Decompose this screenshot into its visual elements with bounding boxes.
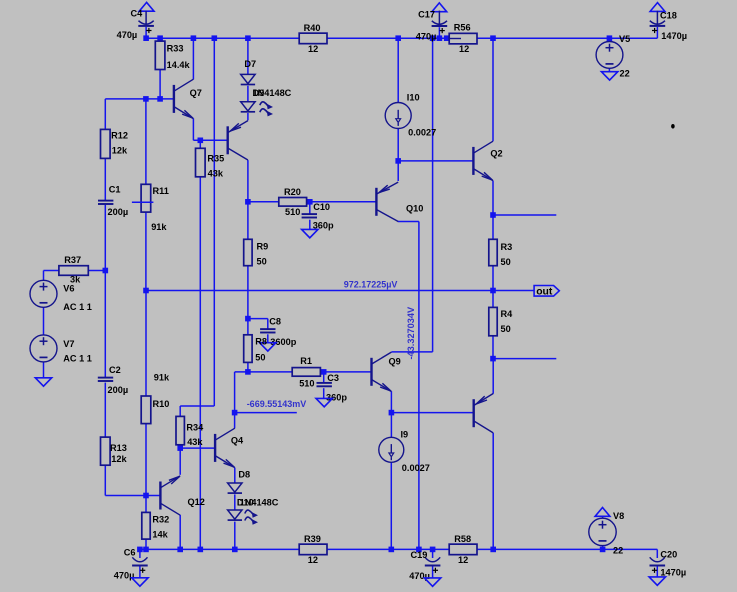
resistor R58: [449, 534, 477, 565]
junction -rail I9: [389, 547, 395, 553]
wire Q2 emitter down: [492, 181, 494, 215]
node voltage 972.17225µV: [344, 279, 398, 289]
svg-text:R35: R35: [207, 154, 224, 164]
svg-text:R3: R3: [501, 242, 513, 252]
resistor R11: [141, 184, 169, 232]
junction R20 R9: [245, 199, 251, 205]
wire Q4 emitter to D8: [234, 468, 236, 483]
wire Q7 emitter to QX bar: [193, 139, 227, 141]
junction Q12 base: [143, 493, 149, 499]
junction rail R34 column: [212, 35, 218, 41]
ground C3: [316, 398, 332, 406]
wire R35 top: [199, 140, 201, 148]
junction Q7 base R11: [143, 96, 149, 102]
junction R1 C3: [321, 369, 327, 375]
resistor R37: [59, 255, 88, 285]
current source I9 value 0.0027: [379, 430, 430, 474]
svg-text:Q12: Q12: [188, 497, 205, 507]
wire Q7 base net: [105, 99, 174, 129]
wire R11 column upper: [145, 99, 147, 184]
capacitor C4: [117, 8, 154, 40]
junction C8 R9: [245, 316, 251, 322]
wire C19 stem: [432, 549, 434, 558]
svg-text:12: 12: [459, 44, 469, 54]
svg-text:R34: R34: [186, 422, 204, 432]
junction mid R3 R4 out: [490, 288, 496, 294]
svg-text:C4: C4: [131, 8, 144, 18]
power flag C17: [432, 3, 447, 12]
wire Q9 emitter down: [390, 391, 392, 412]
junction rail R56 lead: [444, 35, 450, 41]
svg-text:12: 12: [308, 555, 318, 565]
svg-text:Q7: Q7: [190, 88, 202, 98]
capacitor C2: [98, 365, 128, 395]
wire Q12 collector down to -rail: [179, 515, 181, 550]
wire Q7 collector to rail: [192, 38, 194, 79]
wire R37 left to V6: [44, 271, 59, 281]
junction Q7 base R33: [157, 96, 163, 102]
wire stub right of R3 junction: [493, 214, 556, 216]
wire D9 to QX emitter: [247, 113, 249, 120]
transistor Q lower right: [474, 394, 494, 433]
junction -rail R35: [198, 547, 204, 553]
wire D8 to D10: [234, 494, 236, 510]
svg-text:R1: R1: [300, 356, 312, 366]
junction rail C4: [143, 35, 149, 41]
wire Q12 base junction to R32: [145, 496, 147, 513]
voltage source V7 value AC 1 1: [30, 335, 92, 363]
svg-text:R39: R39: [304, 534, 321, 544]
svg-text:50: 50: [257, 257, 267, 267]
junction R20 C10: [307, 199, 313, 205]
svg-text:V5: V5: [619, 34, 630, 44]
svg-text:I9: I9: [401, 430, 409, 440]
svg-text:R40: R40: [304, 23, 321, 33]
transistor Q2: [473, 141, 502, 180]
svg-text:D8: D8: [238, 470, 250, 480]
resistor R8: [244, 335, 267, 363]
wire V7 to ground: [43, 362, 45, 378]
junction R1 left: [245, 369, 251, 375]
voltage source V6 value AC 1 1: [30, 280, 92, 312]
wire R33 bottom: [159, 70, 161, 99]
capacitor C18: [650, 11, 687, 41]
svg-text:V7: V7: [63, 339, 74, 349]
wire R32 to -rail: [145, 539, 147, 549]
resistor R9: [244, 239, 269, 266]
wire Q7 emitter down: [192, 118, 194, 140]
svg-text:91k: 91k: [154, 372, 170, 382]
capacitor C8 value 3600p: [260, 316, 297, 347]
wire C3 stem: [323, 372, 325, 383]
svg-text:C1: C1: [109, 185, 121, 195]
svg-text:12: 12: [308, 44, 318, 54]
junction rail D7: [245, 35, 251, 41]
svg-text:C8: C8: [269, 316, 281, 326]
junction R4 stub: [490, 356, 496, 362]
voltage source V8 value 22: [589, 511, 624, 555]
wire lower Q emitter up: [492, 359, 494, 394]
svg-text:R8: R8: [255, 336, 267, 346]
transistor Q9: [372, 352, 401, 391]
svg-text:14.4k: 14.4k: [167, 60, 191, 70]
power flag C18: [650, 3, 665, 12]
resistor R20: [279, 187, 307, 217]
wire C8 to ground: [267, 334, 269, 342]
svg-text:1470µ: 1470µ: [660, 567, 686, 577]
wire R12 bottom to C1: [104, 158, 106, 200]
svg-text:50: 50: [255, 352, 265, 362]
wire rail to R34 column: [180, 38, 214, 416]
resistor R33: [155, 41, 190, 70]
svg-text:200µ: 200µ: [108, 207, 129, 217]
power flag V8: [595, 508, 610, 517]
svg-text:V8: V8: [613, 511, 624, 521]
svg-text:R37: R37: [64, 255, 81, 265]
resistor R1: [292, 356, 320, 389]
diode D10 value 1N4148C: [228, 497, 279, 524]
svg-text:R33: R33: [167, 44, 184, 54]
svg-text:200µ: 200µ: [108, 385, 129, 395]
svg-text:R4: R4: [501, 309, 514, 319]
wire lower Q collector to -rail: [492, 433, 494, 550]
svg-text:14k: 14k: [152, 529, 168, 539]
resistor R56: [449, 23, 477, 54]
wire V5 to ground: [608, 68, 610, 71]
resistor R12: [101, 129, 129, 158]
wire R1 corner down: [234, 372, 236, 413]
junction -rail V8: [600, 547, 606, 553]
wire Q9 emitter junction to I9: [390, 413, 392, 438]
wire mid junction to R10: [145, 291, 147, 397]
svg-text:510: 510: [299, 379, 314, 389]
junction -rail lower Q: [490, 547, 496, 553]
svg-text:43k: 43k: [208, 169, 224, 179]
node out flag: [534, 286, 559, 298]
svg-text:-43.327034V: -43.327034V: [406, 306, 416, 359]
wire V8 to -rail: [602, 546, 604, 550]
svg-text:470µ: 470µ: [416, 31, 437, 41]
wire R34 bottom junction to Q4 base: [180, 445, 215, 448]
junction R37: [103, 268, 109, 274]
capacitor C10: [302, 202, 334, 231]
svg-text:43k: 43k: [187, 437, 203, 447]
svg-text:Q4: Q4: [231, 435, 244, 445]
resistor R3: [489, 239, 512, 267]
svg-text:22: 22: [620, 69, 630, 79]
resistor R39: [299, 534, 327, 565]
wire -669mV stub: [235, 412, 297, 414]
junction rail I10: [395, 35, 401, 41]
transistor QX upper driver: [228, 121, 248, 160]
current source I10 value 0.0027: [385, 93, 436, 138]
junction rail Q7 collector: [191, 35, 197, 41]
wire C10 to ground: [309, 220, 311, 230]
svg-text:R58: R58: [454, 534, 471, 544]
svg-text:out: out: [536, 286, 553, 297]
svg-text:470µ: 470µ: [117, 30, 138, 40]
junction mid R11 column: [143, 288, 149, 294]
wire lower Q base net: [391, 412, 473, 414]
wire Q2 base net: [398, 160, 473, 162]
capacitor C19: [409, 550, 440, 581]
svg-text:AC 1 1: AC 1 1: [63, 302, 92, 312]
junction -rail C19: [430, 547, 436, 553]
wire rail to V5: [608, 38, 610, 41]
svg-text:C18: C18: [660, 11, 677, 21]
svg-text:R32: R32: [152, 515, 169, 525]
junction -rail D10: [232, 547, 238, 553]
wire bottom -rail net: [140, 548, 657, 550]
capacitor C17: [416, 10, 447, 42]
wire R1 right to Q9 base: [320, 371, 371, 373]
wire R1 left segment: [235, 371, 293, 373]
svg-text:C20: C20: [660, 550, 677, 560]
wire R4 to stub junction: [492, 336, 494, 359]
wire out junction to R4: [492, 291, 494, 308]
diode D7: [241, 59, 256, 85]
svg-text:50: 50: [501, 257, 511, 267]
junction -rail R32: [143, 547, 149, 553]
wire D10 to -rail: [234, 522, 236, 550]
junction -rail Q12: [177, 547, 183, 553]
ground C6: [132, 578, 148, 586]
wire C4 stem to rail: [145, 27, 147, 38]
resistor R13: [101, 437, 128, 465]
wire R20 right to Q10 base: [307, 201, 377, 203]
wire C19 to ground: [432, 566, 434, 578]
junction Q2 base I10: [395, 158, 401, 164]
svg-text:C3: C3: [327, 373, 339, 383]
svg-text:R9: R9: [257, 242, 269, 252]
wire stub right of R4 junction: [493, 358, 556, 360]
svg-text:510: 510: [285, 207, 300, 217]
ground C19: [424, 578, 440, 586]
wire stub crossing R11: [132, 201, 154, 203]
ground V5: [601, 72, 617, 80]
wire Q9 collector elbow: [391, 38, 432, 352]
wire C18 stem: [656, 27, 658, 38]
wire R10 to Q12 base junction: [145, 424, 147, 496]
wire Q12 emitter up to R34 junction: [179, 448, 181, 475]
wire C20 to ground: [656, 566, 658, 578]
wire QX collector to R20 junction: [247, 160, 249, 202]
ground V7: [35, 378, 51, 386]
wire Q2 collector to rail: [492, 38, 494, 141]
stray dot: [671, 124, 675, 129]
transistor Q12: [160, 476, 204, 515]
transistor Q7: [174, 79, 202, 118]
ground C20: [649, 577, 665, 585]
voltage source V5 value 22: [596, 34, 630, 78]
wire C10 stem: [309, 202, 311, 214]
junction Q2 emitter stub: [490, 212, 496, 218]
transistor Q10: [376, 182, 423, 221]
svg-text:R11: R11: [153, 186, 169, 196]
junction -rail Q10 collector: [416, 547, 422, 553]
resistor R34: [176, 416, 204, 446]
wire V8 flag stem: [602, 516, 604, 518]
resistor R40: [299, 23, 327, 54]
capacitor C20: [650, 550, 687, 578]
junction Q4 collector stub: [232, 410, 238, 416]
junction rail C17: [437, 35, 443, 41]
svg-text:AC 1 1: AC 1 1: [63, 353, 92, 363]
wire R8 to R1 junction: [247, 362, 249, 372]
wire C6 to ground: [139, 566, 141, 578]
svg-text:I10: I10: [407, 93, 420, 103]
wire Q10 emitter up: [397, 161, 399, 181]
wire I9 to -rail: [390, 462, 392, 549]
diode D9 value 1N4148C: [241, 88, 292, 116]
junction Q9 emitter: [389, 410, 395, 416]
svg-text:Q10: Q10: [406, 204, 423, 214]
svg-text:50: 50: [501, 324, 511, 334]
svg-text:R10: R10: [153, 399, 170, 409]
svg-text:470µ: 470µ: [114, 570, 135, 580]
svg-text:C19: C19: [411, 550, 428, 560]
svg-text:1470µ: 1470µ: [661, 31, 687, 41]
svg-text:R20: R20: [284, 187, 301, 197]
wire R20 left: [248, 201, 279, 203]
node voltage -669.55143mV: [247, 399, 307, 409]
wire Q4 collector up: [234, 413, 236, 429]
capacitor C1: [98, 185, 128, 217]
svg-text:12k: 12k: [112, 146, 128, 156]
ground C8: [260, 343, 276, 351]
svg-text:R13: R13: [110, 443, 127, 453]
svg-text:D9: D9: [253, 88, 265, 98]
power flag C4: [139, 2, 154, 11]
wire Q10 collector elbow: [398, 222, 419, 550]
svg-text:D10: D10: [237, 497, 254, 507]
wire R37 right: [88, 270, 105, 272]
svg-text:Q9: Q9: [389, 356, 401, 366]
ground C10: [302, 229, 318, 237]
resistor R32: [142, 512, 169, 539]
wire C6 stem: [139, 549, 141, 558]
svg-text:R56: R56: [454, 23, 471, 33]
wire D7 to D9: [247, 86, 249, 102]
junction rail V5: [607, 35, 613, 41]
diode D8: [228, 470, 251, 493]
wire top +rail net: [146, 37, 657, 39]
wire C17 stem: [438, 27, 440, 38]
svg-text:0.0027: 0.0027: [402, 463, 430, 473]
wire mid out net horizontal: [146, 290, 534, 292]
junction rail x433: [430, 35, 436, 41]
svg-text:91k: 91k: [151, 222, 167, 232]
wire rail to D7: [247, 38, 249, 74]
wire C20 stem: [656, 549, 658, 558]
svg-text:C2: C2: [109, 365, 121, 375]
junction -rail C6: [137, 547, 143, 553]
wire C8 junction to R8: [247, 319, 249, 335]
svg-text:22: 22: [613, 545, 623, 555]
svg-text:12k: 12k: [111, 454, 127, 464]
svg-text:12: 12: [458, 555, 468, 565]
wire R3 to out junction: [492, 266, 494, 291]
svg-text:C10: C10: [313, 202, 330, 212]
transistor Q4: [215, 428, 244, 467]
resistor R35: [196, 148, 225, 178]
wire R35 long column to -rail: [199, 177, 201, 550]
junction rail R33: [157, 35, 163, 41]
capacitor C3: [317, 373, 348, 403]
wire C2 to R13: [104, 383, 106, 438]
svg-text:-669.55143mV: -669.55143mV: [247, 399, 307, 409]
svg-text:C6: C6: [124, 547, 136, 557]
junction rail Q2: [490, 35, 496, 41]
resistor R4: [489, 307, 513, 335]
wire V6 to V7: [43, 307, 45, 335]
resistor R10 value 91k: [141, 372, 170, 423]
svg-text:972.17225µV: 972.17225µV: [344, 279, 398, 289]
node voltage -43.327034V: [406, 306, 416, 359]
wire C1 to C2 (junction R37 column): [104, 205, 106, 377]
svg-text:0.0027: 0.0027: [408, 127, 436, 137]
wire junction to R9: [247, 202, 249, 240]
capacitor C6: [114, 547, 148, 580]
wire C3 to ground: [323, 388, 325, 398]
junction Q7 emitter R35: [198, 138, 204, 144]
wire junction to R3: [492, 215, 494, 239]
wire R13 to Q12 base: [105, 465, 160, 495]
wire R9 to C8 junction: [247, 266, 249, 319]
wire I10 top: [397, 38, 399, 102]
svg-text:Q2: Q2: [490, 148, 502, 158]
svg-text:D7: D7: [244, 59, 256, 69]
wire I10 bottom to Q2 base junction: [397, 129, 399, 161]
svg-text:R12: R12: [111, 131, 128, 141]
wire R11 to mid junction: [145, 212, 147, 290]
svg-text:V6: V6: [63, 283, 74, 293]
wire C8 branch: [248, 319, 268, 329]
svg-text:C17: C17: [418, 10, 435, 20]
junction R34 bottom: [177, 445, 183, 451]
